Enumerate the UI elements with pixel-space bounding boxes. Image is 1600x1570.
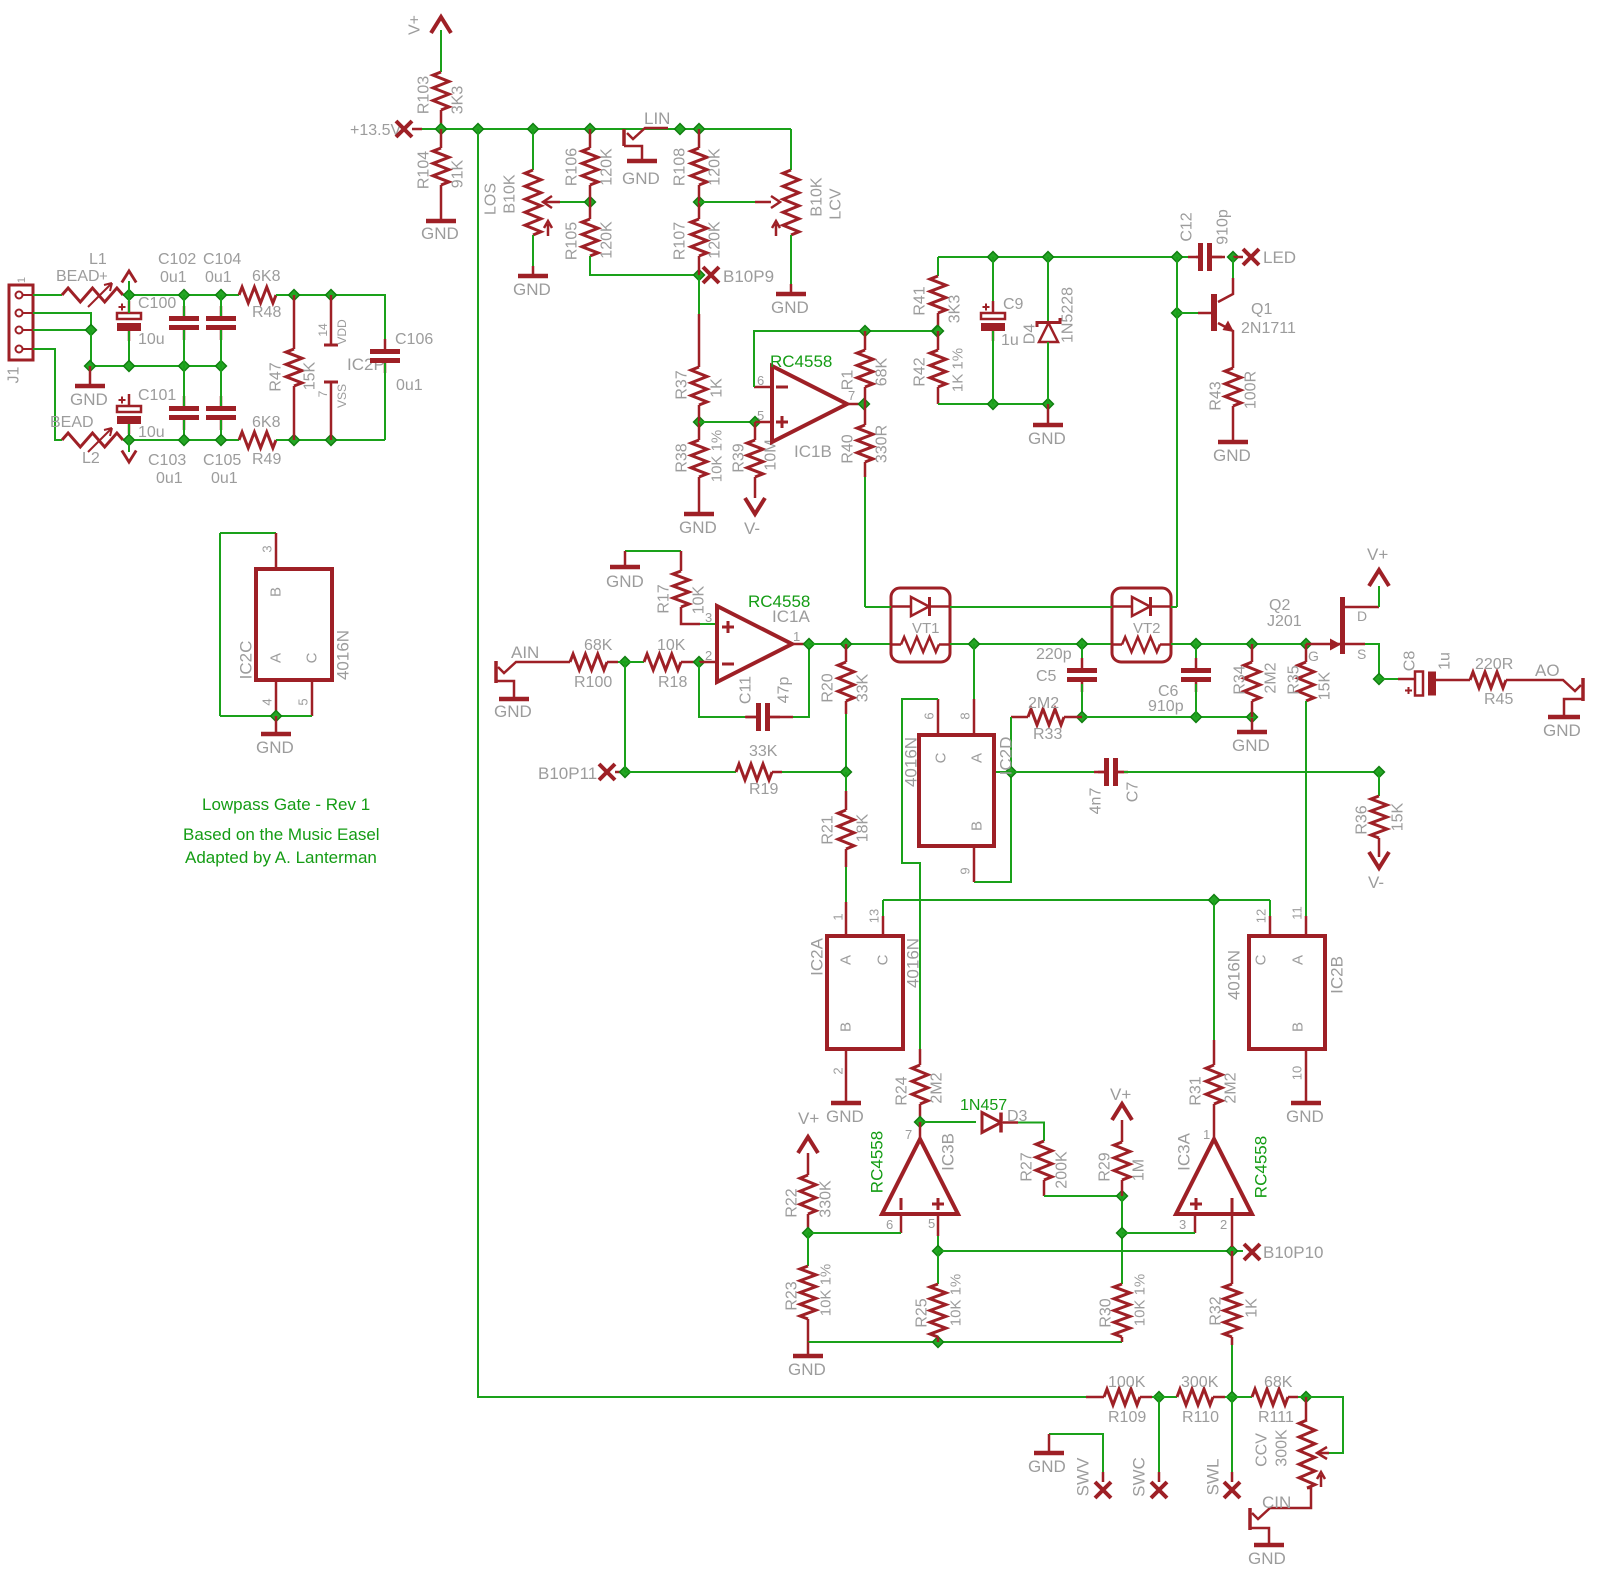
svg-text:B10P11: B10P11 [538,764,597,783]
svg-text:R105: R105 [564,222,581,260]
svg-text:2: 2 [1220,1217,1227,1232]
svg-text:C105: C105 [203,452,241,469]
svg-text:B: B [969,821,986,831]
svg-text:C5: C5 [1036,668,1057,685]
svg-text:C100: C100 [138,295,176,312]
svg-text:R30: R30 [1098,1298,1115,1327]
svg-text:120K: 120K [599,221,616,259]
svg-text:7: 7 [905,1127,912,1142]
svg-text:10K: 10K [657,637,686,654]
svg-text:68K: 68K [874,357,891,386]
svg-text:1M: 1M [1131,1159,1148,1181]
svg-text:100K: 100K [1108,1374,1146,1391]
svg-text:L1: L1 [89,251,107,268]
svg-text:2M2: 2M2 [1223,1072,1240,1103]
svg-text:R36: R36 [1354,805,1371,834]
svg-text:LCV: LCV [828,188,845,219]
svg-text:BEAD: BEAD [56,268,100,285]
svg-text:C9: C9 [1003,296,1024,313]
svg-text:6: 6 [886,1217,893,1232]
svg-text:R47: R47 [268,362,285,391]
svg-text:R43: R43 [1208,381,1225,410]
svg-text:R23: R23 [784,1281,801,1310]
svg-text:R109: R109 [1108,1409,1146,1426]
svg-text:2N1711: 2N1711 [1241,320,1296,337]
svg-text:R111: R111 [1258,1409,1294,1426]
svg-text:C104: C104 [203,251,241,268]
svg-text:10K 1%: 10K 1% [948,1274,965,1327]
svg-text:B: B [268,587,285,597]
svg-text:V-: V- [1368,873,1384,892]
svg-text:910p: 910p [1148,698,1184,715]
svg-text:AO: AO [1535,661,1560,680]
svg-text:4016N: 4016N [334,630,353,680]
svg-text:3K3: 3K3 [450,86,467,115]
svg-text:5: 5 [296,698,311,705]
svg-text:GND: GND [679,518,717,537]
svg-text:10K 1%: 10K 1% [1132,1274,1149,1327]
svg-text:C: C [933,752,950,763]
svg-text:6K8: 6K8 [252,414,281,431]
svg-text:3: 3 [260,545,275,552]
svg-text:1K: 1K [709,378,726,398]
svg-text:RC4558: RC4558 [1252,1136,1271,1198]
svg-text:1N5228: 1N5228 [1060,287,1077,343]
svg-text:1N457: 1N457 [960,1097,1007,1114]
svg-text:L2: L2 [82,450,100,467]
svg-text:BEAD: BEAD [50,414,94,431]
svg-text:S: S [1357,646,1366,662]
svg-text:V+: V+ [1367,545,1388,564]
svg-text:GND: GND [70,390,108,409]
svg-text:LIN: LIN [644,109,670,128]
svg-text:GND: GND [1028,429,1066,448]
svg-text:C101: C101 [138,387,176,404]
svg-text:GND: GND [1232,736,1270,755]
svg-text:C106: C106 [395,331,433,348]
svg-text:V+: V+ [798,1109,819,1128]
svg-text:15K: 15K [302,361,319,390]
svg-text:1: 1 [793,629,800,644]
svg-text:R41: R41 [912,286,929,315]
svg-text:V+: V+ [407,15,424,35]
svg-text:C8: C8 [1402,651,1419,672]
svg-text:GND: GND [1248,1549,1286,1568]
svg-text:R33: R33 [1033,726,1062,743]
svg-text:Based on the Music Easel: Based on the Music Easel [183,825,380,844]
svg-text:7: 7 [316,390,330,397]
svg-text:IC2A: IC2A [808,937,827,975]
svg-text:GND: GND [1543,721,1581,740]
svg-text:11: 11 [1290,906,1305,920]
svg-text:Q1: Q1 [1251,301,1272,318]
svg-text:J1: J1 [6,366,23,383]
svg-text:120K: 120K [707,221,724,259]
svg-text:C102: C102 [158,251,196,268]
svg-text:6K8: 6K8 [252,268,281,285]
svg-text:B10P10: B10P10 [1263,1243,1324,1262]
svg-text:3: 3 [705,610,712,625]
svg-text:B10P9: B10P9 [723,267,774,286]
svg-text:4n7: 4n7 [1088,788,1105,815]
svg-text:8: 8 [958,712,973,719]
svg-text:10K 1%: 10K 1% [709,430,726,483]
svg-text:R32: R32 [1208,1296,1225,1325]
svg-text:R34: R34 [1232,665,1249,694]
svg-text:R39: R39 [731,443,748,472]
svg-text:C: C [1253,954,1270,965]
svg-text:R22: R22 [784,1188,801,1217]
svg-text:220R: 220R [1475,656,1513,673]
svg-text:1K 1%: 1K 1% [950,348,967,392]
svg-text:C7: C7 [1125,782,1142,803]
svg-text:IC2C: IC2C [237,641,256,680]
svg-text:0u1: 0u1 [211,470,238,487]
svg-text:IC2D: IC2D [997,737,1016,776]
svg-text:R103: R103 [416,76,433,114]
svg-text:GND: GND [1286,1107,1324,1126]
svg-text:4016N: 4016N [1225,950,1244,1000]
svg-text:120K: 120K [599,148,616,186]
svg-text:14: 14 [316,323,330,337]
svg-text:330R: 330R [874,425,891,463]
svg-text:0u1: 0u1 [396,377,423,394]
svg-text:R104: R104 [416,151,433,189]
svg-text:68K: 68K [1264,1374,1293,1391]
svg-text:Adapted by A. Lanterman: Adapted by A. Lanterman [185,848,377,867]
svg-text:Lowpass Gate - Rev 1: Lowpass Gate - Rev 1 [202,795,370,814]
svg-text:10u: 10u [138,424,165,441]
svg-text:R42: R42 [912,357,929,386]
svg-text:0u1: 0u1 [205,269,232,286]
svg-text:LED: LED [1263,248,1296,267]
svg-text:0u1: 0u1 [160,269,187,286]
svg-text:R48: R48 [252,304,281,321]
svg-text:J201: J201 [1267,613,1302,630]
svg-text:1u: 1u [1001,332,1019,349]
svg-text:IC2B: IC2B [1328,956,1347,994]
svg-text:R21: R21 [820,815,837,844]
svg-text:VDD: VDD [335,319,349,345]
svg-text:33K: 33K [749,743,778,760]
svg-text:91K: 91K [450,159,467,188]
svg-text:R17: R17 [656,584,673,613]
svg-text:1K: 1K [1244,1298,1261,1318]
svg-text:V+: V+ [1110,1085,1131,1104]
svg-text:CIN: CIN [1262,1493,1291,1512]
svg-text:R31: R31 [1188,1076,1205,1105]
svg-text:GND: GND [513,280,551,299]
svg-text:18K: 18K [855,813,872,842]
svg-text:300K: 300K [1181,1374,1219,1391]
svg-text:GND: GND [421,224,459,243]
svg-text:A: A [969,753,986,763]
svg-text:C11: C11 [738,676,755,704]
svg-text:3K3: 3K3 [947,295,964,324]
svg-text:R20: R20 [820,673,837,702]
svg-text:SWC: SWC [1130,1457,1149,1497]
svg-text:R37: R37 [674,370,691,399]
svg-text:R29: R29 [1097,1152,1114,1181]
svg-text:D: D [1357,608,1367,624]
svg-text:4016N: 4016N [904,938,923,988]
svg-text:R35: R35 [1286,665,1303,694]
svg-text:6: 6 [757,373,764,388]
svg-text:68K: 68K [584,637,613,654]
svg-text:100R: 100R [1243,371,1260,409]
svg-text:Q2: Q2 [1269,597,1290,614]
svg-text:2: 2 [831,1067,846,1074]
svg-text:B10K: B10K [502,174,519,213]
svg-text:1u: 1u [1437,652,1454,670]
svg-text:1: 1 [16,277,28,283]
svg-text:10K 1%: 10K 1% [818,1264,835,1317]
svg-text:R40: R40 [840,434,857,463]
svg-text:R108: R108 [672,148,689,186]
svg-text:330K: 330K [818,1180,835,1218]
svg-text:VT2: VT2 [1133,620,1161,637]
svg-text:5: 5 [928,1216,935,1231]
svg-text:10: 10 [1290,1066,1305,1080]
svg-text:R106: R106 [564,148,581,186]
svg-text:13: 13 [867,909,882,923]
svg-text:R38: R38 [674,443,691,472]
svg-text:AIN: AIN [511,643,539,662]
svg-text:910p: 910p [1215,209,1232,245]
svg-text:G: G [1308,648,1319,664]
svg-text:3: 3 [1179,1217,1186,1232]
svg-text:R45: R45 [1484,691,1513,708]
svg-text:A: A [838,955,855,965]
svg-text:9: 9 [958,867,973,874]
svg-text:IC3B: IC3B [939,1133,958,1171]
svg-text:C: C [875,954,892,965]
svg-text:SWL: SWL [1204,1459,1223,1496]
svg-text:C103: C103 [148,452,186,469]
svg-text:47p: 47p [776,677,793,704]
svg-text:GND: GND [1213,446,1251,465]
svg-text:R49: R49 [252,451,281,468]
svg-text:IC1A: IC1A [772,607,810,626]
svg-text:R100: R100 [574,674,612,691]
svg-text:C: C [304,652,321,663]
svg-text:2M2: 2M2 [1028,695,1059,712]
svg-text:IC1B: IC1B [794,442,832,461]
svg-text:220p: 220p [1036,646,1072,663]
svg-text:2M2: 2M2 [1263,662,1280,693]
svg-text:200K: 200K [1054,1151,1071,1189]
svg-text:A: A [1290,955,1307,965]
svg-text:+: + [99,268,108,285]
svg-text:VT1: VT1 [912,620,940,637]
svg-text:C12: C12 [1179,212,1196,241]
svg-text:5: 5 [757,408,764,423]
svg-text:B: B [1290,1022,1307,1032]
svg-text:R107: R107 [672,222,689,260]
svg-text:6: 6 [922,712,937,719]
svg-text:R110: R110 [1182,1409,1219,1426]
svg-text:33K: 33K [855,673,872,702]
svg-text:12: 12 [1254,909,1269,923]
svg-text:GND: GND [606,572,644,591]
svg-text:LOS: LOS [483,183,500,215]
svg-text:GND: GND [1028,1457,1066,1476]
svg-text:B: B [838,1022,855,1032]
svg-text:0u1: 0u1 [156,470,183,487]
svg-text:R24: R24 [894,1076,911,1105]
svg-text:R19: R19 [749,781,778,798]
svg-text:GND: GND [494,702,532,721]
svg-text:D4: D4 [1022,324,1039,345]
svg-text:10u: 10u [138,331,165,348]
svg-text:IC3A: IC3A [1175,1132,1194,1170]
svg-text:300K: 300K [1274,1429,1291,1467]
svg-text:GND: GND [826,1107,864,1126]
svg-text:CCV: CCV [1254,1433,1271,1467]
svg-text:120K: 120K [707,148,724,186]
svg-text:GND: GND [256,738,294,757]
svg-text:4016N: 4016N [902,737,921,787]
svg-text:R1: R1 [840,370,857,391]
svg-text:A: A [268,653,285,663]
svg-text:GND: GND [788,1360,826,1379]
svg-text:B10K: B10K [809,177,826,216]
svg-text:RC4558: RC4558 [770,352,832,371]
svg-text:RC4558: RC4558 [868,1131,887,1193]
svg-text:GND: GND [622,169,660,188]
svg-text:2M2: 2M2 [929,1072,946,1103]
svg-text:VSS: VSS [335,384,349,408]
svg-text:1: 1 [1203,1127,1210,1142]
svg-text:R27: R27 [1019,1152,1036,1181]
svg-text:1: 1 [831,913,846,920]
svg-text:GND: GND [771,298,809,317]
svg-text:IC2P: IC2P [347,355,385,374]
svg-text:15K: 15K [1390,802,1407,831]
svg-text:R18: R18 [658,674,687,691]
svg-text:+13.5V: +13.5V [350,122,401,139]
svg-text:SWV: SWV [1074,1457,1093,1496]
svg-text:15K: 15K [1317,671,1334,700]
svg-text:R25: R25 [914,1298,931,1327]
svg-text:4: 4 [260,698,275,705]
svg-text:V-: V- [744,519,760,538]
